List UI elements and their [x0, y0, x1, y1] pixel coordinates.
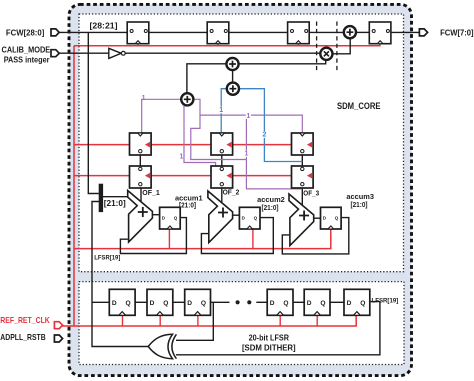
svg-text:OF_1: OF_1: [142, 190, 160, 197]
wire inverter to multiplier: [125, 52, 321, 54]
wire lfsr q3-d4: [293, 301, 304, 303]
svg-text:CALIB_MODE: CALIB_MODE: [2, 45, 51, 55]
port symbol CALIB_MODE input: [51, 50, 59, 57]
wire red clock row2: [74, 175, 313, 177]
wire error tree to multiplier: [187, 61, 326, 93]
adder U2 accumulator-2 adder: [208, 191, 233, 243]
wire carry net P1: [142, 99, 181, 133]
label delay 1 on P5: [244, 150, 249, 157]
wire lfsr q5 feedback: [176, 302, 380, 355]
svg-text:Q: Q: [174, 216, 178, 221]
wire FF2t to FF3t: [229, 31, 287, 33]
flip-flop OF_3 stage FF A: [292, 133, 314, 155]
svg-text:accum1: accum1: [175, 195, 203, 202]
svg-text:[28:21]: [28:21]: [90, 20, 118, 30]
svg-text:[SDM DITHER]: [SDM DITHER]: [242, 343, 296, 353]
wire T1-T2: [232, 71, 234, 83]
flip-flop OF_2 stage FF A: [211, 133, 233, 155]
svg-text:LFSR[19]: LFSR[19]: [372, 298, 399, 305]
flip-flop LFSR FF1: [147, 289, 173, 315]
flip-flop FF2t z-1: [207, 22, 229, 44]
svg-text:Q: Q: [201, 300, 206, 307]
svg-text:D: D: [112, 300, 117, 307]
wire FCW input: [59, 31, 128, 33]
wire col1 row1-row2: [139, 155, 141, 166]
wire carry net P5: [246, 115, 302, 189]
wire clock stub LFSR FF4: [316, 315, 318, 326]
wire carry net P3: [194, 99, 302, 133]
label delay 1 on P3: [246, 112, 251, 119]
wire adder2 to accum2 FF: [233, 214, 240, 216]
adder U1 accumulator-1 adder: [128, 191, 153, 243]
wire col1 row2-adder1: [140, 188, 142, 202]
svg-text:1: 1: [244, 151, 248, 158]
LFSR dotted box: [79, 282, 404, 365]
svg-text:REF_RET_CLK: REF_RET_CLK: [0, 315, 50, 325]
XOR gate feedback: [148, 334, 176, 358]
svg-text:[21:0]: [21:0]: [104, 199, 126, 208]
dashed boundary left: [316, 22, 318, 72]
svg-text:accum3: accum3: [346, 194, 374, 201]
multiplier M1: [320, 48, 332, 60]
wire lfsr q2 tap: [211, 301, 230, 303]
wire col3 row2-adder3: [301, 188, 303, 205]
adder output adder P: [344, 26, 356, 38]
svg-text:accum2: accum2: [257, 197, 285, 204]
flip-flop LFSR FF2: [185, 289, 211, 315]
svg-text:D: D: [150, 300, 155, 307]
svg-text:OF_3: OF_3: [303, 190, 319, 197]
wire output adder to FF4t: [356, 31, 369, 33]
adder adder T3: [181, 93, 193, 105]
label delay 1 on P1: [142, 95, 146, 102]
svg-text:2: 2: [262, 132, 266, 139]
flip-flop FF1t z-1: [127, 22, 149, 44]
wire FCW low bits tap: [88, 32, 99, 193]
wire carry net P2: [184, 105, 216, 166]
wire LFSR[19] dither: [92, 202, 149, 347]
adder adder T2: [227, 83, 239, 95]
svg-text:[21:0]: [21:0]: [179, 203, 196, 210]
dashed boundary right: [336, 22, 338, 72]
wire col3 row1-row2: [301, 155, 303, 166]
adder U3 accumulator-3 adder: [289, 194, 314, 246]
svg-text:OF_2: OF_2: [223, 189, 240, 196]
svg-text:FCW[7:0]: FCW[7:0]: [440, 29, 474, 38]
svg-text:20-bit LFSR: 20-bit LFSR: [249, 332, 289, 342]
svg-text:Q: Q: [163, 300, 168, 307]
svg-text:1: 1: [219, 107, 223, 114]
wire accum2 feedback: [201, 218, 273, 254]
wire accum1 feedback: [120, 218, 186, 254]
port symbol FCW[28:0] input: [51, 29, 59, 36]
flip-flop LFSR FF5: [344, 289, 370, 315]
wire clock stub FF1t: [137, 44, 139, 46]
wire red clock LFSR row: [62, 315, 356, 326]
svg-text:1: 1: [246, 113, 250, 120]
flip-flop LFSR FF3: [267, 289, 293, 315]
svg-text:D: D: [347, 300, 352, 307]
flip-flop FF3t z-1: [288, 22, 310, 44]
svg-text:Q: Q: [360, 300, 365, 307]
wire col2 row1-row2: [221, 155, 223, 166]
wire accum3 feedback: [282, 218, 349, 254]
wire clock stub LFSR FF3: [279, 315, 281, 326]
flip-flop OF_3 stage FF B: [292, 166, 314, 188]
svg-text:ADPLL_RSTB: ADPLL_RSTB: [0, 332, 45, 342]
wire clock stub FF3t: [297, 44, 299, 46]
wire adder1 to accum1 FF: [152, 214, 159, 216]
flip-flop accum1 register: [160, 207, 181, 229]
svg-text:Q: Q: [283, 300, 288, 307]
svg-text:Q: Q: [320, 300, 325, 307]
ADPLL top-level dashed border: [69, 4, 412, 375]
wire lfsr q0-d1: [135, 301, 147, 303]
flip-flop FF4t output register: [369, 22, 391, 44]
svg-text:PASS integer: PASS integer: [4, 54, 50, 64]
wire FF1t to FF2t: [149, 31, 207, 33]
flip-flop LFSR FF0: [109, 289, 135, 315]
flip-flop accum2 register: [239, 207, 260, 229]
wire FCW[7:0] output: [390, 31, 420, 33]
svg-text:Q: Q: [254, 216, 258, 221]
wire lfsr in: [92, 301, 109, 303]
port symbol ADPLL_RSTB input: [54, 335, 62, 342]
svg-text:[21:0]: [21:0]: [350, 202, 367, 209]
wire carry net P4: [191, 115, 247, 159]
wire carry net B2: [240, 89, 302, 162]
port symbol REF_RET_CLK input: [54, 322, 62, 329]
wire FF3t to output adder: [310, 31, 344, 33]
wire lfsr dots-d3: [256, 301, 267, 303]
wire clock stub accum1 FF: [168, 229, 170, 249]
label delay 1 on P2: [179, 154, 183, 161]
svg-text:D: D: [187, 300, 192, 307]
svg-text:[21:0]: [21:0]: [261, 205, 278, 212]
wire clock stub FF2t: [217, 44, 219, 46]
svg-text:Q: Q: [335, 216, 339, 221]
ellipsis dots: [236, 300, 252, 304]
inverter on CALIB_MODE: [109, 48, 125, 58]
adder adder T1: [226, 58, 238, 70]
wire col2 row2-adder2: [221, 188, 223, 203]
flip-flop LFSR FF4: [304, 289, 330, 315]
port symbol FCW[7:0] output: [419, 29, 427, 36]
flip-flop OF_2 stage FF B: [211, 166, 233, 188]
wire red clock row1: [74, 144, 313, 146]
wire lfsr q4-d5: [330, 301, 344, 303]
svg-text:1: 1: [179, 154, 183, 161]
wire carry net B1: [221, 89, 226, 133]
svg-text:LFSR[19]: LFSR[19]: [94, 255, 120, 262]
wire clock stub LFSR FF0: [122, 315, 124, 326]
label delay 1 on B1: [219, 107, 224, 114]
svg-text:D: D: [307, 300, 312, 307]
wire red clock top row: [74, 42, 380, 46]
flip-flop accum3 register: [321, 207, 342, 229]
svg-text:FCW[28:0]: FCW[28:0]: [6, 27, 45, 37]
wire red clock accum row: [74, 229, 331, 249]
flip-flop OF_1 stage FF B: [130, 166, 152, 188]
wire REF_RET_CLK main vertical: [73, 46, 75, 326]
svg-text:Q: Q: [126, 300, 131, 307]
SDM_CORE dotted box: [79, 14, 404, 272]
wire CALIB_MODE input: [59, 52, 109, 54]
svg-text:D: D: [270, 300, 275, 307]
wire multiplier to output adder: [333, 39, 350, 54]
wire clock stub accum2 FF: [252, 229, 254, 249]
wire clock stub LFSR FF1: [159, 315, 161, 326]
label delay 2 on B2: [262, 131, 267, 138]
wire lfsr q1-d2: [173, 301, 185, 303]
bus concat bar [21:0]: [99, 184, 103, 212]
wire concat to accum1 adder: [103, 196, 128, 198]
svg-text:1: 1: [142, 95, 146, 102]
wire adder3 to accum3 FF: [314, 217, 321, 219]
flip-flop OF_1 stage FF A: [130, 133, 152, 155]
wire lfsr tap down: [176, 302, 213, 340]
svg-text:SDM_CORE: SDM_CORE: [337, 101, 381, 112]
wire clock stub LFSR FF2: [197, 315, 199, 326]
